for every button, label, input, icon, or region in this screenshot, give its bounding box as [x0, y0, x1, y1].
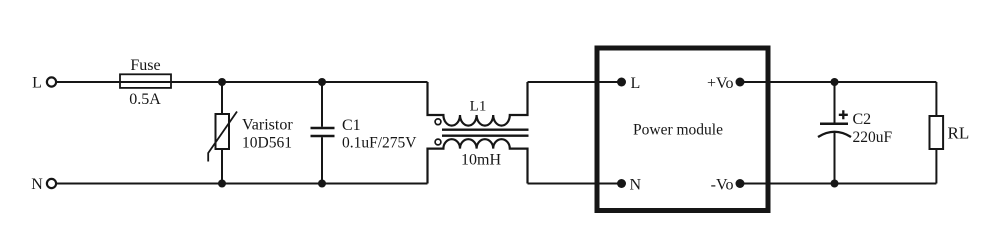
svg-text:+Vo: +Vo: [707, 75, 734, 92]
pin dot +Vo: [736, 78, 745, 87]
choke L1 core line lower: [442, 135, 529, 137]
capacitor C2 positive plate: [820, 123, 848, 126]
svg-text:0.1uF/275V: 0.1uF/275V: [342, 135, 417, 152]
junction dot varistor top: [218, 78, 226, 86]
wire: module +Vo pin stub: [740, 81, 770, 83]
choke L1 top winding: [428, 82, 528, 126]
svg-text:Power module: Power module: [633, 121, 723, 138]
varistor bottom lead wire: [221, 149, 223, 184]
capacitor C2 curved plate: [818, 132, 851, 137]
svg-text:10mH: 10mH: [461, 152, 501, 169]
wire: N terminal to choke (bottom line): [56, 183, 427, 185]
capacitor C2 plus sign: [839, 110, 848, 119]
svg-text:C2: C2: [853, 111, 872, 128]
pin dot -Vo: [736, 179, 745, 188]
capacitor C1 top plate: [311, 127, 335, 130]
svg-text:220uF: 220uF: [853, 129, 893, 146]
svg-text:N: N: [31, 176, 43, 193]
svg-text:-Vo: -Vo: [711, 176, 734, 193]
choke L1 core line upper: [442, 129, 529, 131]
wire: module L pin stub: [596, 81, 622, 83]
resistor RL bottom lead: [935, 149, 937, 184]
wire: module N pin stub: [596, 183, 622, 185]
wire: choke to module N pin: [528, 183, 601, 185]
pin dot N: [617, 179, 626, 188]
varistor RV body: [216, 114, 230, 149]
capacitor C2 bottom lead: [834, 132, 836, 184]
junction dot C1 top: [318, 78, 326, 86]
power module U1 box: [597, 48, 768, 211]
wire: L terminal to choke (top line): [56, 81, 427, 83]
capacitor C2 top lead: [834, 82, 836, 123]
svg-text:0.5A: 0.5A: [129, 91, 161, 108]
varistor top lead wire: [221, 82, 223, 114]
svg-text:L: L: [631, 75, 641, 92]
wire: module -Vo pin stub: [740, 183, 770, 185]
choke L1 bottom phase dot: [435, 139, 441, 145]
svg-text:Varistor: Varistor: [242, 117, 293, 134]
capacitor C1 bottom lead: [321, 137, 323, 183]
junction dot varistor bottom: [218, 180, 226, 188]
svg-text:10D561: 10D561: [242, 135, 292, 152]
varistor diagonal stroke: [208, 112, 237, 162]
svg-text:L1: L1: [470, 99, 487, 115]
svg-text:N: N: [630, 177, 642, 194]
terminal N circle: [47, 179, 56, 188]
svg-text:L: L: [32, 75, 42, 92]
wire: -Vo to RL (bottom right): [768, 183, 936, 185]
junction dot C2 bottom: [831, 180, 839, 188]
capacitor C1 top lead: [321, 82, 323, 127]
capacitor C1 bottom plate: [311, 135, 335, 138]
pin dot L: [617, 78, 626, 87]
resistor RL body: [930, 116, 944, 149]
fuse F body: [120, 74, 171, 88]
svg-text:C1: C1: [342, 117, 361, 134]
terminal L circle: [47, 77, 56, 86]
wire: choke to module L pin: [528, 81, 601, 83]
junction dot C2 top: [831, 78, 839, 86]
svg-text:RL: RL: [948, 123, 970, 142]
junction dot C1 bottom: [318, 180, 326, 188]
svg-text:Fuse: Fuse: [130, 57, 160, 74]
resistor RL top lead: [935, 82, 937, 116]
choke L1 top phase dot: [435, 119, 441, 125]
wire: +Vo to RL (top right): [768, 81, 936, 83]
choke L1 bottom winding: [428, 139, 528, 183]
